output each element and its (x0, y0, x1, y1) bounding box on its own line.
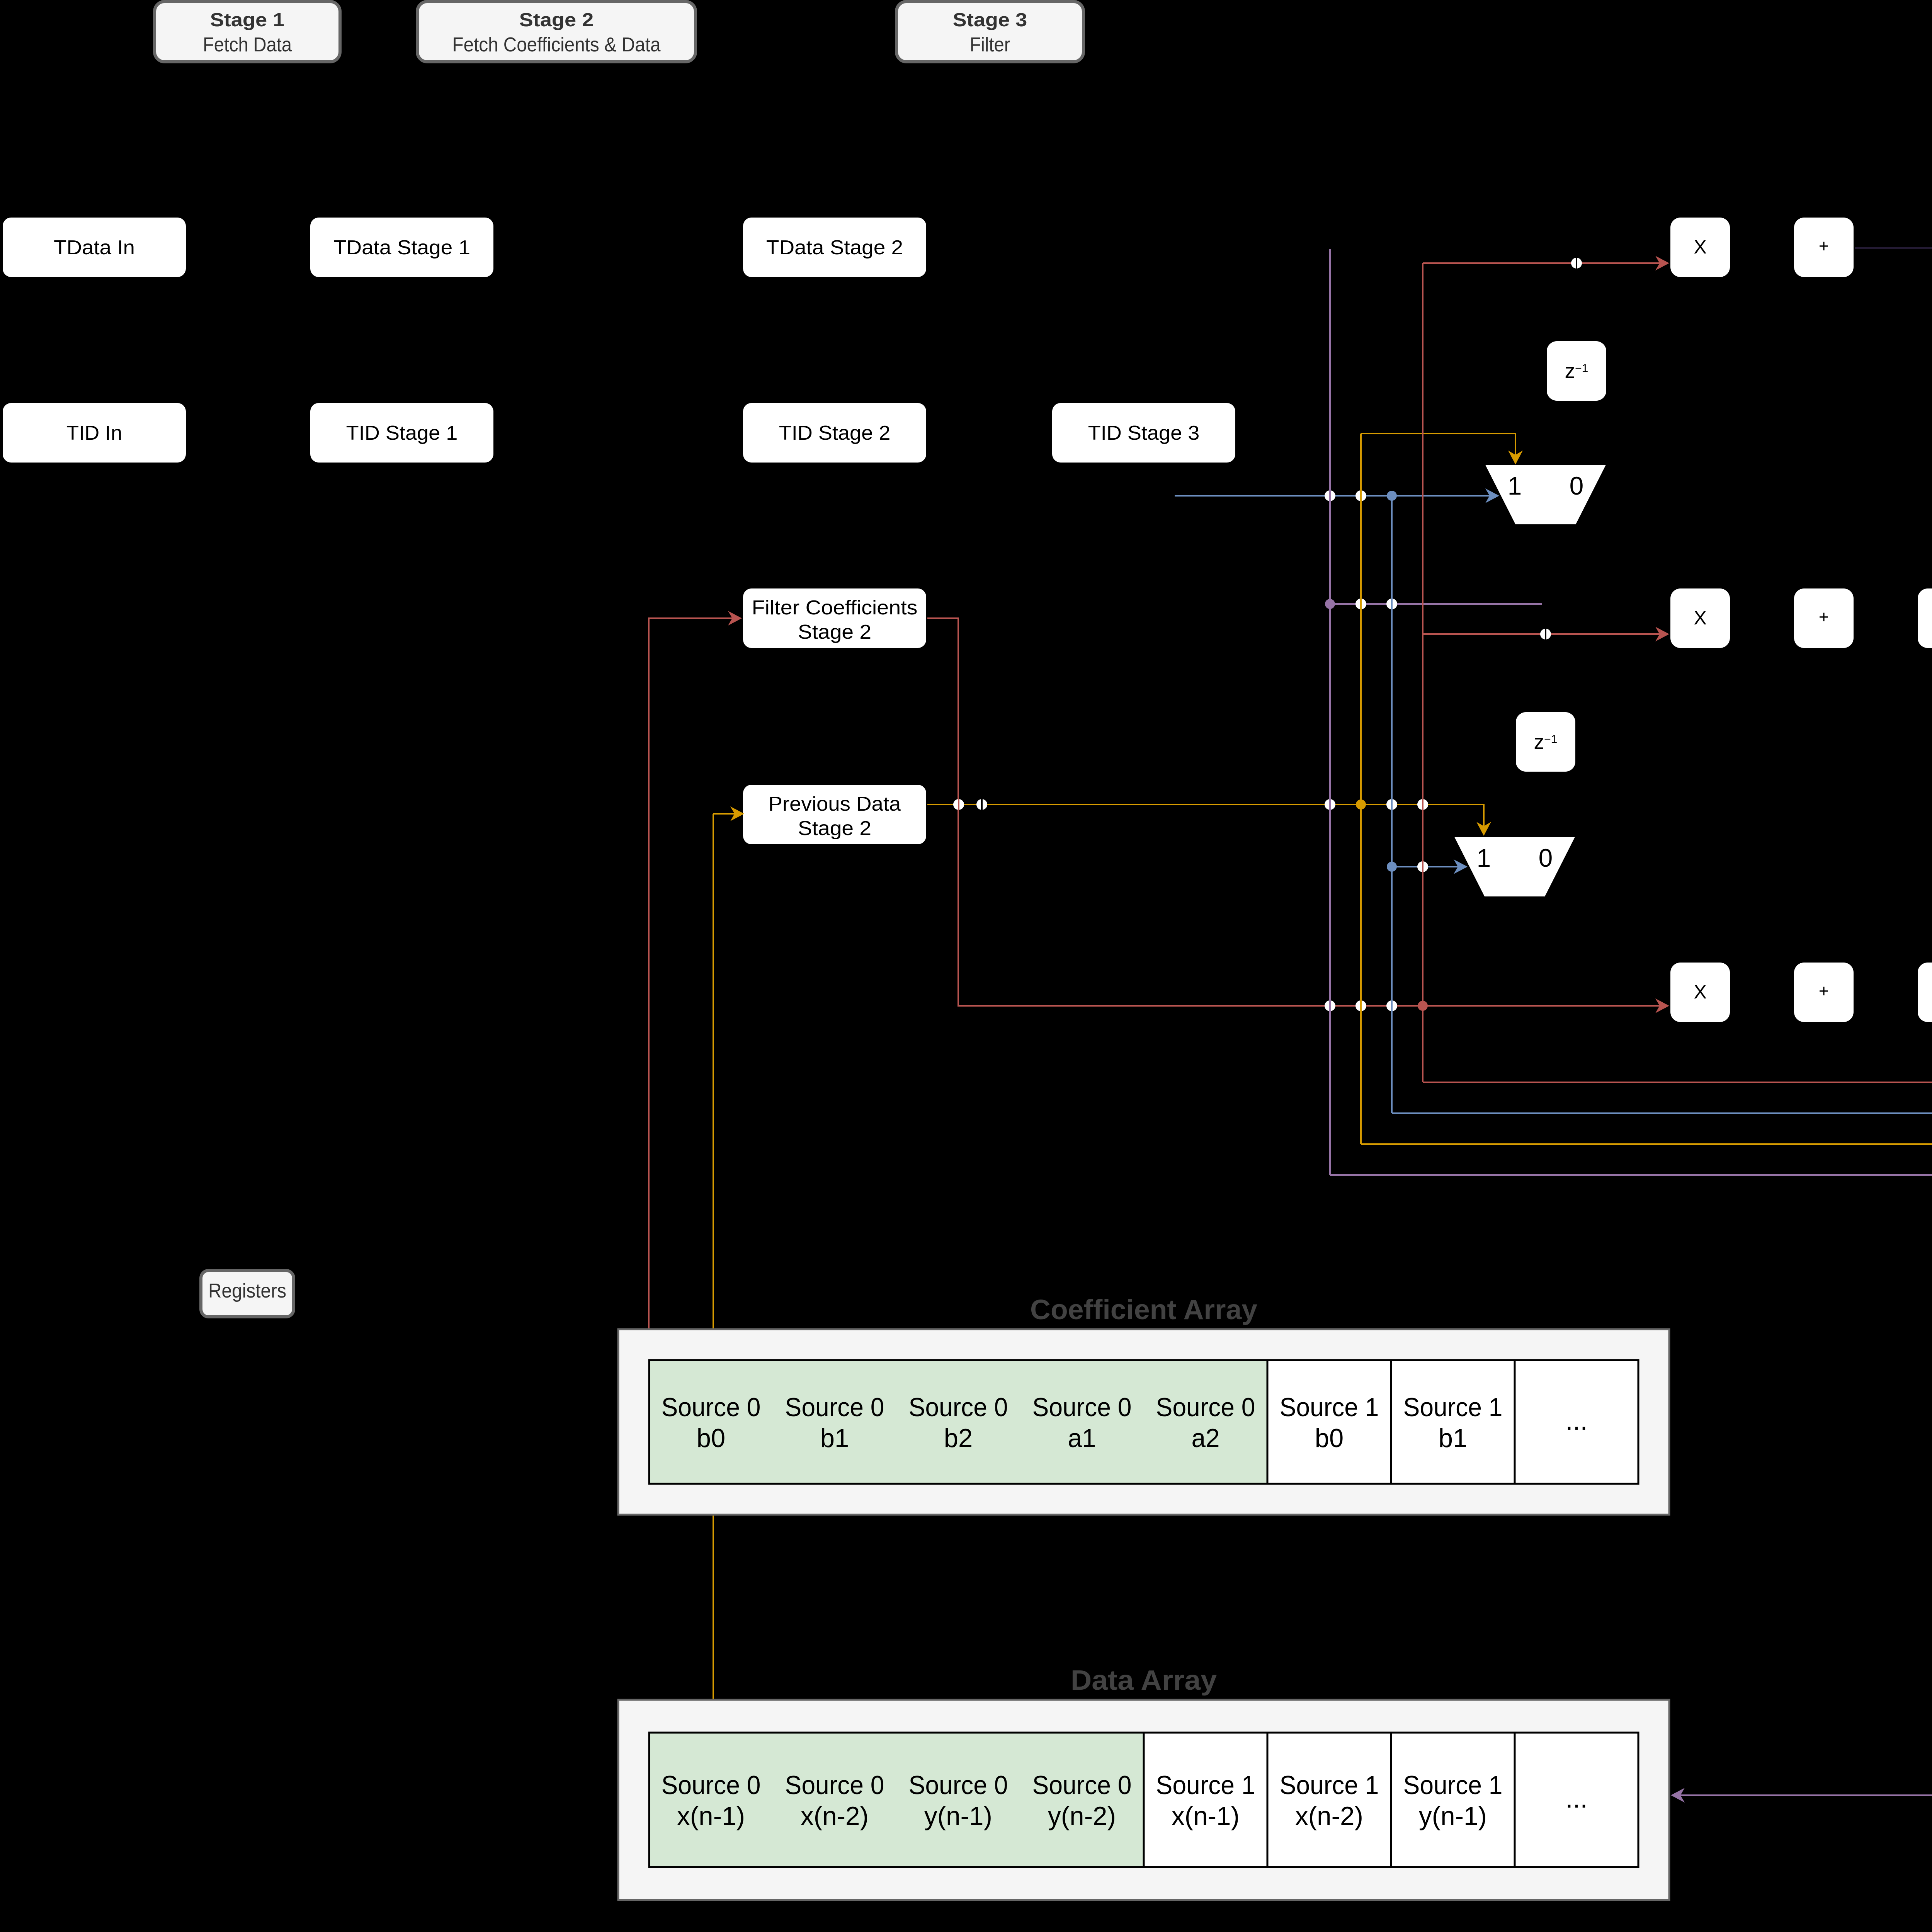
svg-text:a1: a1 (1068, 1423, 1096, 1453)
svg-text:...: ... (1566, 1784, 1588, 1813)
svg-text:TID Stage 2: TID Stage 2 (779, 422, 891, 444)
svg-text:X: X (1694, 236, 1706, 258)
svg-text:Source 0: Source 0 (1032, 1393, 1132, 1422)
svg-text:a2: a2 (1191, 1423, 1219, 1453)
svg-text:TID In: TID In (66, 422, 122, 444)
svg-text:b0: b0 (697, 1423, 725, 1453)
svg-text:Data Array: Data Array (1071, 1665, 1217, 1696)
svg-text:+: + (1819, 236, 1829, 256)
svg-text:y(n-1): y(n-1) (1419, 1801, 1487, 1831)
svg-text:...: ... (1566, 1406, 1588, 1435)
svg-text:x(n-1): x(n-1) (677, 1801, 745, 1831)
svg-text:Registers: Registers (208, 1280, 286, 1302)
svg-text:Source 0: Source 0 (662, 1770, 761, 1800)
svg-text:+: + (1819, 981, 1829, 1001)
svg-text:Fetch Data: Fetch Data (203, 34, 292, 56)
svg-text:Stage 2: Stage 2 (798, 817, 871, 840)
svg-text:b1: b1 (820, 1423, 849, 1453)
svg-text:TID Stage 3: TID Stage 3 (1088, 422, 1200, 444)
svg-text:+: + (1819, 607, 1829, 627)
svg-text:Filter Coefficients: Filter Coefficients (752, 597, 918, 619)
svg-text:0: 0 (1539, 844, 1553, 872)
svg-text:y(n-2): y(n-2) (1048, 1801, 1116, 1831)
svg-text:b0: b0 (1315, 1423, 1344, 1453)
svg-text:0: 0 (1570, 471, 1584, 500)
svg-text:1: 1 (1508, 471, 1522, 500)
svg-text:X: X (1694, 607, 1706, 629)
svg-text:TID Stage 1: TID Stage 1 (346, 422, 458, 444)
svg-text:Stage 3: Stage 3 (953, 10, 1027, 31)
svg-text:Source 1: Source 1 (1280, 1393, 1379, 1422)
svg-text:Previous Data: Previous Data (769, 793, 901, 815)
svg-text:Filter: Filter (969, 34, 1010, 56)
svg-text:Source 1: Source 1 (1156, 1770, 1255, 1800)
svg-text:Source 1: Source 1 (1403, 1393, 1503, 1422)
svg-text:Coefficient Array: Coefficient Array (1030, 1294, 1257, 1325)
svg-text:Source 1: Source 1 (1280, 1770, 1379, 1800)
svg-text:Fetch Coefficients & Data: Fetch Coefficients & Data (452, 34, 661, 56)
svg-text:x(n-1): x(n-1) (1172, 1801, 1240, 1831)
svg-text:Source 0: Source 0 (785, 1770, 884, 1800)
svg-text:Source 0: Source 0 (909, 1770, 1008, 1800)
svg-text:b2: b2 (944, 1423, 973, 1453)
svg-text:1: 1 (1477, 844, 1491, 872)
svg-text:Stage 2: Stage 2 (798, 621, 871, 643)
svg-text:Source 0: Source 0 (1032, 1770, 1132, 1800)
svg-text:X: X (1694, 981, 1706, 1003)
svg-text:TData Stage 2: TData Stage 2 (766, 236, 903, 259)
svg-text:x(n-2): x(n-2) (801, 1801, 869, 1831)
svg-text:Source 0: Source 0 (662, 1393, 761, 1422)
svg-text:Source 1: Source 1 (1403, 1770, 1503, 1800)
svg-text:TData In: TData In (54, 236, 135, 259)
svg-text:y(n-1): y(n-1) (924, 1801, 992, 1831)
svg-text:Source 0: Source 0 (1156, 1393, 1255, 1422)
svg-text:Source 0: Source 0 (785, 1393, 884, 1422)
svg-text:Stage 2: Stage 2 (519, 10, 594, 31)
svg-text:b1: b1 (1439, 1423, 1467, 1453)
svg-text:Source 0: Source 0 (909, 1393, 1008, 1422)
svg-text:x(n-2): x(n-2) (1295, 1801, 1363, 1831)
svg-text:TData Stage 1: TData Stage 1 (333, 236, 470, 259)
svg-text:Stage 1: Stage 1 (210, 10, 285, 31)
